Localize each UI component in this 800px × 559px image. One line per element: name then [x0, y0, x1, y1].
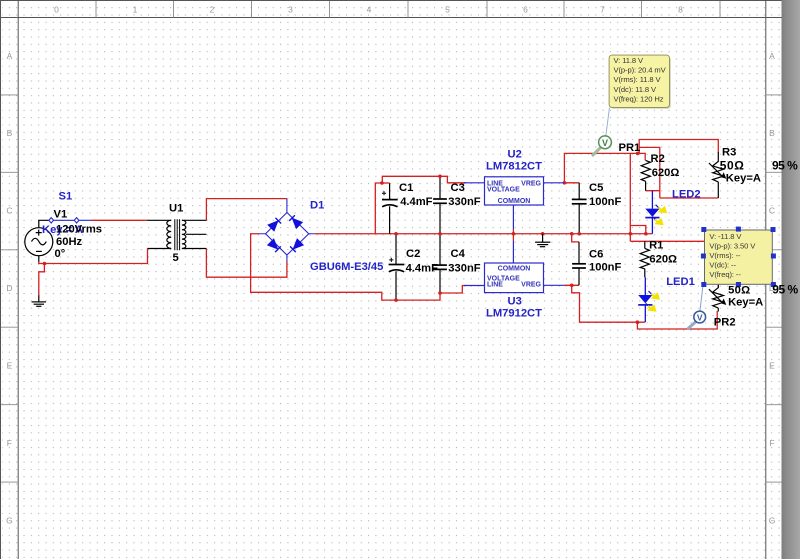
svg-text:0°: 0°: [55, 248, 66, 260]
svg-text:LINE: LINE: [487, 282, 503, 289]
svg-text:50Ω: 50Ω: [728, 284, 750, 296]
svg-text:3: 3: [288, 4, 293, 14]
svg-text:C2: C2: [406, 248, 420, 260]
svg-text:F: F: [769, 438, 774, 448]
svg-text:V: V: [602, 138, 608, 148]
svg-text:PR2: PR2: [714, 317, 736, 329]
svg-text:2: 2: [210, 4, 215, 14]
svg-text:GBU6M-E3/45: GBU6M-E3/45: [310, 261, 383, 273]
svg-text:C3: C3: [451, 182, 465, 194]
svg-text:330nF: 330nF: [448, 262, 480, 274]
svg-text:LED2: LED2: [672, 188, 701, 200]
svg-text:100nF: 100nF: [589, 262, 621, 274]
svg-text:0: 0: [54, 4, 59, 14]
svg-text:620Ω: 620Ω: [649, 253, 677, 265]
svg-text:Key=A: Key=A: [728, 297, 763, 309]
svg-text:V: V: [697, 312, 703, 322]
svg-text:V(freq): --: V(freq): --: [709, 270, 741, 279]
svg-text:U1: U1: [169, 203, 183, 215]
svg-text:V(freq): 120 Hz: V(freq): 120 Hz: [614, 95, 664, 104]
svg-text:V(dc): --: V(dc): --: [709, 261, 736, 270]
svg-text:V(p-p): 20.4 mV: V(p-p): 20.4 mV: [614, 66, 667, 75]
svg-text:8: 8: [678, 4, 683, 14]
svg-text:PR1: PR1: [619, 142, 641, 154]
svg-text:R2: R2: [651, 153, 665, 165]
svg-text:U2: U2: [508, 149, 522, 161]
svg-text:VREG: VREG: [521, 282, 541, 289]
svg-text:LM7912CT: LM7912CT: [486, 307, 542, 319]
svg-text:LM7812CT: LM7812CT: [486, 161, 542, 173]
svg-text:V: -11.8 V: V: -11.8 V: [709, 232, 742, 241]
svg-text:1: 1: [133, 4, 138, 14]
svg-text:C: C: [6, 206, 12, 216]
svg-text:COMMON: COMMON: [498, 198, 531, 205]
svg-text:LED1: LED1: [666, 276, 695, 288]
svg-text:U3: U3: [508, 295, 522, 307]
svg-text:50Ω: 50Ω: [720, 158, 745, 172]
svg-text:V(dc): 11.8 V: V(dc): 11.8 V: [614, 85, 657, 94]
svg-text:330nF: 330nF: [448, 196, 480, 208]
svg-text:VOLTAGE: VOLTAGE: [487, 186, 520, 193]
svg-text:100nF: 100nF: [589, 196, 621, 208]
svg-text:D: D: [6, 283, 12, 293]
svg-text:C1: C1: [399, 182, 413, 194]
svg-text:V: 11.8 V: V: 11.8 V: [614, 56, 645, 65]
svg-text:G: G: [6, 515, 13, 525]
svg-text:V1: V1: [54, 209, 68, 221]
svg-text:V(p-p): 3.50 V: V(p-p): 3.50 V: [709, 242, 756, 251]
svg-text:620Ω: 620Ω: [652, 167, 680, 179]
svg-text:4.4mF: 4.4mF: [406, 262, 438, 274]
svg-text:60Hz: 60Hz: [56, 236, 83, 248]
svg-text:C6: C6: [589, 248, 603, 260]
svg-text:120Vrms: 120Vrms: [56, 224, 102, 236]
svg-text:A: A: [769, 51, 775, 61]
svg-text:D1: D1: [310, 199, 324, 211]
svg-text:C5: C5: [589, 182, 603, 194]
svg-text:7: 7: [600, 4, 605, 14]
svg-text:C: C: [769, 206, 775, 216]
svg-text:VREG: VREG: [521, 180, 541, 187]
svg-text:E: E: [7, 361, 13, 371]
svg-text:5: 5: [445, 4, 450, 14]
svg-text:6: 6: [523, 4, 528, 14]
svg-text:V(rms): --: V(rms): --: [709, 251, 741, 260]
svg-text:G: G: [769, 515, 776, 525]
svg-text:V(rms): 11.8 V: V(rms): 11.8 V: [614, 75, 662, 84]
svg-text:Key=A: Key=A: [726, 172, 761, 184]
svg-text:95 %: 95 %: [772, 283, 798, 297]
svg-text:E: E: [769, 361, 775, 371]
svg-text:4.4mF: 4.4mF: [400, 196, 432, 208]
svg-text:5: 5: [173, 252, 179, 264]
svg-text:F: F: [7, 438, 12, 448]
svg-text:A: A: [7, 51, 13, 61]
svg-text:COMMON: COMMON: [498, 265, 531, 272]
svg-text:R1: R1: [649, 240, 663, 252]
svg-text:B: B: [769, 128, 775, 138]
svg-text:S1: S1: [59, 190, 73, 202]
svg-text:B: B: [7, 128, 13, 138]
svg-text:R3: R3: [722, 147, 736, 159]
svg-text:95 %: 95 %: [772, 159, 798, 173]
svg-text:4: 4: [367, 4, 372, 14]
svg-text:C4: C4: [451, 248, 466, 260]
